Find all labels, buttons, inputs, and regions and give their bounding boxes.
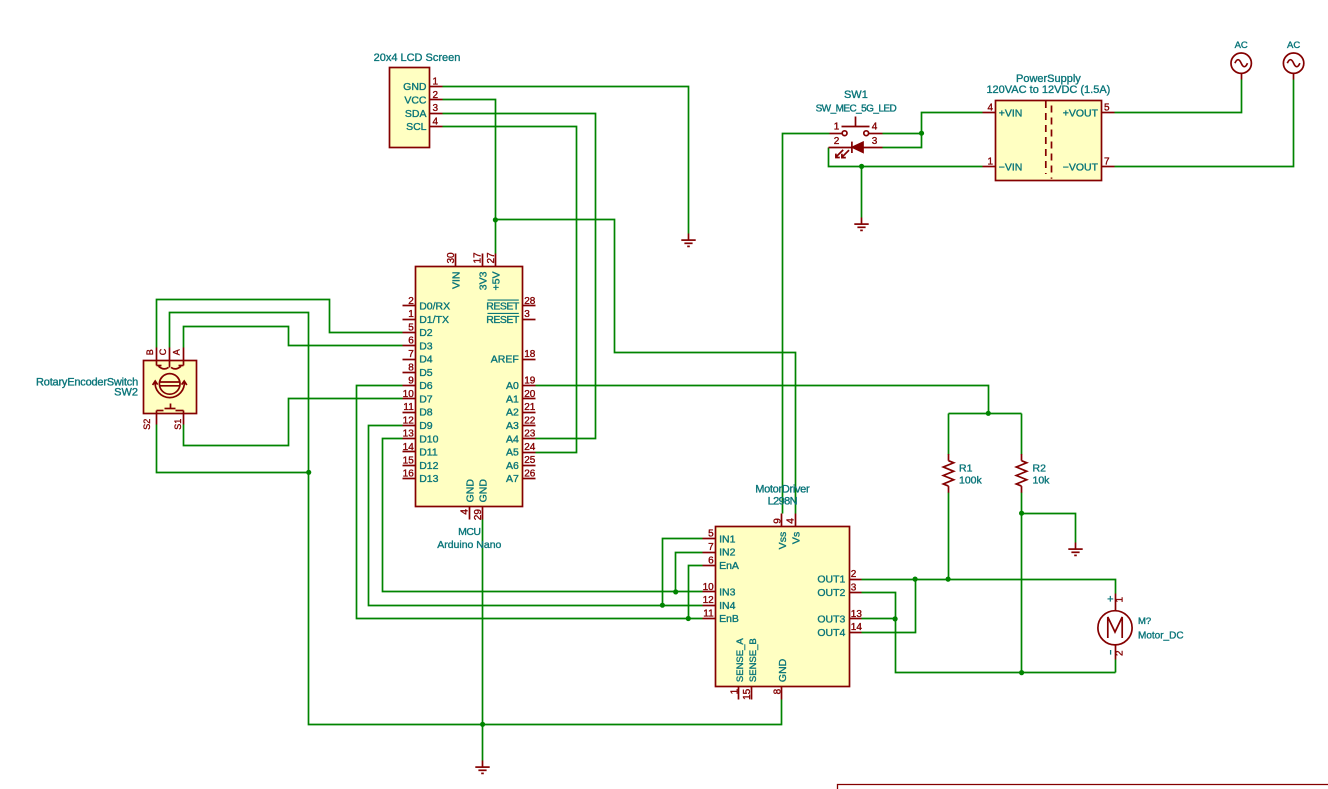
motor driver pin 13 OUT3 <box>850 618 862 620</box>
svg-text:7: 7 <box>708 542 714 553</box>
svg-text:A1: A1 <box>506 394 519 406</box>
wire SW1 pin1 to Vss <box>783 134 830 514</box>
svg-text:GND: GND <box>464 479 476 503</box>
ground SW1 <box>854 218 868 231</box>
svg-text:AC: AC <box>1287 40 1300 51</box>
svg-text:20: 20 <box>524 389 536 400</box>
svg-text:D8: D8 <box>419 407 433 419</box>
svg-text:6: 6 <box>708 555 714 566</box>
power supply pin 1 −VIN <box>983 166 996 168</box>
svg-text:−VIN: −VIN <box>999 161 1023 173</box>
svg-text:AREF: AREF <box>491 354 519 366</box>
rotary encoder rotation arrows <box>153 381 187 398</box>
svg-text:8: 8 <box>772 688 783 694</box>
svg-text:D7: D7 <box>419 393 433 405</box>
svg-text:13: 13 <box>403 429 415 440</box>
motor driver pin 15 SENSE_B bottom <box>751 687 753 700</box>
svg-text:12: 12 <box>403 415 415 426</box>
svg-text:GND: GND <box>777 658 789 682</box>
wire OUT2 to OUT3 <box>862 593 896 619</box>
svg-text:SW1: SW1 <box>844 89 868 101</box>
wire B to D2 <box>157 300 403 348</box>
wire C to ground rail <box>170 313 782 725</box>
svg-text:D13: D13 <box>419 473 438 485</box>
svg-text:SW_MEC_5G_LED: SW_MEC_5G_LED <box>816 104 897 115</box>
svg-text:OUT2: OUT2 <box>817 587 845 599</box>
svg-text:5: 5 <box>708 529 714 540</box>
LCD screen box <box>390 68 430 148</box>
MCU pin 14 D11 <box>403 451 416 453</box>
junction 5V <box>493 217 498 222</box>
wire SW1 pin3 riser <box>883 134 922 148</box>
svg-text:R1: R1 <box>959 463 973 475</box>
svg-text:100k: 100k <box>959 474 983 486</box>
MCU pin 20 A1 <box>523 398 536 400</box>
svg-text:Arduino Nano: Arduino Nano <box>437 539 501 551</box>
junction IN1/IN4 <box>660 603 665 608</box>
rotary encoder contact arcs <box>159 366 182 369</box>
svg-text:2: 2 <box>433 90 439 101</box>
motor driver pin 14 OUT4 <box>850 632 862 634</box>
svg-text:L298N: L298N <box>768 496 798 508</box>
MCU pin 1 D1/TX <box>403 319 416 321</box>
svg-text:OUT1: OUT1 <box>817 574 845 586</box>
wire LCD VCC down to +5V pin <box>443 100 496 254</box>
svg-text:3: 3 <box>433 103 439 114</box>
motor driver pin 9 Vss top <box>781 514 783 527</box>
svg-text:18: 18 <box>524 349 536 360</box>
svg-text:7: 7 <box>1104 156 1110 167</box>
ground MCU rail <box>475 761 489 774</box>
MCU pin 25 A6 <box>523 465 536 467</box>
MCU pin 29 GND bottom <box>482 507 484 520</box>
junction IN2/IN3 <box>673 589 678 594</box>
svg-text:Motor_DC: Motor_DC <box>1138 630 1184 641</box>
wire EnA to EnB <box>689 566 703 619</box>
svg-text:26: 26 <box>524 469 536 480</box>
MCU pin 18 AREF <box>523 359 536 361</box>
MCU pin 7 D4 <box>403 359 416 361</box>
resistor R2 10k <box>1016 454 1026 493</box>
svg-text:14: 14 <box>851 622 863 633</box>
svg-text:SENSE_A: SENSE_A <box>735 638 746 682</box>
svg-text:25: 25 <box>524 455 536 466</box>
svg-text:A: A <box>172 349 182 355</box>
svg-text:9: 9 <box>408 376 414 387</box>
svg-text:GND: GND <box>478 479 490 503</box>
junction -VIN <box>859 164 864 169</box>
svg-text:5: 5 <box>408 322 414 333</box>
wire R2 bottom <box>1021 493 1023 673</box>
svg-text:PowerSupply: PowerSupply <box>1016 73 1081 85</box>
junction S2/C <box>306 470 311 475</box>
svg-text:C: C <box>158 348 168 355</box>
svg-text:A6: A6 <box>506 460 519 472</box>
motor driver U? box <box>716 527 850 687</box>
LCD pin 1 GND <box>430 86 443 88</box>
wire A to D3 <box>184 327 403 348</box>
svg-text:15: 15 <box>742 688 753 700</box>
motor driver pin 12 IN4 <box>703 605 716 607</box>
svg-text:6: 6 <box>408 336 414 347</box>
svg-text:4: 4 <box>786 518 797 524</box>
svg-text:4: 4 <box>433 117 439 128</box>
svg-text:120VAC to 12VDC (1.5A): 120VAC to 12VDC (1.5A) <box>986 84 1110 96</box>
svg-text:7: 7 <box>408 349 414 360</box>
MCU pin 19 A0 <box>523 385 536 387</box>
rotary encoder top pins B C A <box>157 348 184 368</box>
wire to +VIN <box>922 113 983 134</box>
svg-text:S2: S2 <box>142 419 152 430</box>
title block border <box>838 785 1328 789</box>
svg-text:16: 16 <box>403 469 415 480</box>
MCU pin 2 D0/RX <box>403 305 416 307</box>
wire -VIN net to ground <box>861 167 863 218</box>
svg-text:MotorDriver: MotorDriver <box>755 484 810 496</box>
wire R1 bottom to OUT1 net <box>948 493 950 580</box>
junction SW1 <box>919 131 924 136</box>
wire S2 to ground net <box>157 425 309 473</box>
power supply PS box <box>996 101 1102 181</box>
svg-text:28: 28 <box>524 296 536 307</box>
svg-text:13: 13 <box>851 609 863 620</box>
svg-text:R2: R2 <box>1033 463 1047 475</box>
svg-text:A4: A4 <box>506 433 519 445</box>
svg-text:2: 2 <box>834 136 840 147</box>
wire MCU GND to rail <box>482 520 484 725</box>
svg-text:D4: D4 <box>419 354 433 366</box>
svg-text:SCL: SCL <box>406 121 427 133</box>
junction divider <box>986 411 991 416</box>
svg-text:1: 1 <box>1115 597 1126 603</box>
svg-text:A0: A0 <box>506 380 519 392</box>
svg-text:11: 11 <box>703 609 714 620</box>
wire rail to ground symbol <box>482 725 484 761</box>
wire OUT1 to motor + <box>862 580 1116 594</box>
motor driver pin 6 EnA <box>703 565 716 567</box>
svg-text:2: 2 <box>408 296 414 307</box>
wire R1 top <box>948 414 950 455</box>
MCU pin 15 D12 <box>403 465 416 467</box>
MCU pin 27 +5V top <box>495 254 497 267</box>
wire 5V to Vs <box>496 220 796 514</box>
svg-text:1: 1 <box>729 688 740 694</box>
svg-text:14: 14 <box>403 442 415 453</box>
LCD pin 2 VCC <box>430 99 443 101</box>
svg-text:IN3: IN3 <box>719 587 736 599</box>
wire SCL to A5 <box>443 127 577 453</box>
MCU pin 28 RESET <box>523 305 536 307</box>
svg-text:IN2: IN2 <box>719 547 736 559</box>
MCU pin 6 D3 <box>403 345 416 347</box>
power supply isolation dashes <box>1046 101 1052 179</box>
junction GND rail <box>480 722 485 727</box>
svg-text:+: + <box>1107 594 1113 606</box>
wire +VOUT to AC1 <box>1115 80 1242 113</box>
svg-text:20x4 LCD Screen: 20x4 LCD Screen <box>374 52 461 64</box>
svg-text:+5V: +5V <box>491 272 503 291</box>
switch SW1 body <box>830 117 883 136</box>
MCU pin 22 A3 <box>523 425 536 427</box>
svg-text:A5: A5 <box>506 447 519 459</box>
MCU pin 9 D6 <box>403 385 416 387</box>
svg-text:+VIN: +VIN <box>999 108 1023 120</box>
svg-text:EnA: EnA <box>719 560 739 572</box>
svg-text:9: 9 <box>772 518 783 524</box>
motor driver pin 10 IN3 <box>703 591 716 593</box>
MCU pin 3 RESET <box>523 319 536 321</box>
svg-text:D3: D3 <box>419 340 433 352</box>
svg-text:10: 10 <box>703 582 715 593</box>
LCD pin 3 SDA <box>430 113 443 115</box>
svg-text:D1/TX: D1/TX <box>419 314 449 326</box>
motor driver pin 4 Vs top <box>795 514 797 527</box>
rotary encoder push switch <box>157 404 184 425</box>
MCU pin 5 D2 <box>403 332 416 334</box>
motor driver pin 3 OUT2 <box>850 592 862 594</box>
svg-text:A7: A7 <box>506 473 519 485</box>
MCU pin 16 D13 <box>403 478 416 480</box>
svg-text:2: 2 <box>851 569 857 580</box>
svg-text:1: 1 <box>408 309 414 320</box>
wire IN2 to IN3 <box>676 553 703 592</box>
power supply pin 4 +VIN <box>983 112 996 114</box>
SW1 LED D <box>829 142 883 153</box>
motor driver pin 8 GND bottom <box>781 687 783 700</box>
ground R2 <box>1068 543 1082 556</box>
MCU U? box <box>416 267 523 507</box>
svg-text:12: 12 <box>703 595 715 606</box>
svg-text:D5: D5 <box>419 367 433 379</box>
svg-text:5: 5 <box>1104 103 1110 114</box>
svg-text:A3: A3 <box>506 420 519 432</box>
MCU pin 17 3V3 top <box>482 254 484 267</box>
svg-text:D11: D11 <box>419 447 438 459</box>
wire OUT4 to OUT1 <box>862 580 916 633</box>
svg-text:VIN: VIN <box>451 272 463 290</box>
svg-text:2: 2 <box>1115 650 1126 656</box>
svg-text:D12: D12 <box>419 460 438 472</box>
svg-text:30: 30 <box>446 252 457 264</box>
svg-text:4: 4 <box>872 122 878 133</box>
svg-text:MCU: MCU <box>458 526 480 538</box>
MCU pin 12 D9 <box>403 425 416 427</box>
wire R2 to ground <box>1022 514 1076 543</box>
svg-text:1: 1 <box>433 77 439 88</box>
power supply pin 5 +VOUT <box>1102 112 1115 114</box>
wire -VOUT to AC2 <box>1115 80 1294 167</box>
svg-text:10k: 10k <box>1033 474 1051 486</box>
MCU pin 4 GND bottom <box>469 507 471 520</box>
svg-text:3: 3 <box>851 582 857 593</box>
motor driver pin 1 SENSE_A bottom <box>738 687 740 700</box>
svg-text:1: 1 <box>834 122 840 133</box>
rotary encoder SW2 box <box>144 361 197 414</box>
AC source AC1 <box>1231 53 1251 80</box>
svg-text:EnB: EnB <box>719 613 739 625</box>
svg-text:3V3: 3V3 <box>477 271 489 290</box>
power supply pin 7 −VOUT <box>1102 166 1115 168</box>
svg-text:D0/RX: D0/RX <box>419 301 450 313</box>
wire D9 to IN4 <box>369 426 703 606</box>
MCU pin 21 A2 <box>523 412 536 414</box>
svg-text:A2: A2 <box>506 407 519 419</box>
rotary encoder rotor <box>159 374 180 395</box>
wire OUT3 <box>862 618 896 620</box>
svg-text:SENSE_B: SENSE_B <box>748 638 759 682</box>
svg-text:1: 1 <box>987 156 993 167</box>
MCU pin 24 A5 <box>523 452 536 454</box>
svg-text:D6: D6 <box>419 380 433 392</box>
MCU pin 10 D7 <box>403 398 416 400</box>
svg-text:3: 3 <box>524 309 530 320</box>
wire IN1 to IN4 <box>663 539 703 606</box>
svg-text:OUT3: OUT3 <box>817 614 845 626</box>
svg-text:VCC: VCC <box>404 95 427 107</box>
svg-text:−VOUT: −VOUT <box>1063 161 1099 173</box>
wire divider top rail <box>949 413 1022 415</box>
svg-text:RESET: RESET <box>486 301 520 313</box>
svg-text:IN1: IN1 <box>719 533 736 545</box>
svg-text:IN4: IN4 <box>719 600 736 612</box>
svg-text:Vss: Vss <box>777 532 789 550</box>
junction OUT4/OUT1 <box>913 577 918 582</box>
wire OUT3 net to motor - <box>896 619 1116 673</box>
svg-text:29: 29 <box>473 509 484 521</box>
svg-text:8: 8 <box>408 362 414 373</box>
junction OUT2/OUT3 <box>893 616 898 621</box>
svg-text:10: 10 <box>403 389 415 400</box>
wire D10 to IN3 <box>383 439 703 592</box>
motor M? <box>1098 594 1132 660</box>
svg-text:D9: D9 <box>419 420 433 432</box>
wire D6 to EnB <box>357 386 703 619</box>
MCU pin 30 VIN top <box>455 254 457 267</box>
junction R2/gnd <box>1019 511 1024 516</box>
svg-text:S1: S1 <box>173 419 183 430</box>
SW1 LED light arrows <box>836 150 849 158</box>
svg-text:23: 23 <box>524 429 536 440</box>
svg-text:24: 24 <box>524 442 536 453</box>
svg-text:AC: AC <box>1235 40 1248 51</box>
svg-text:OUT4: OUT4 <box>817 627 845 639</box>
svg-text:+VOUT: +VOUT <box>1063 108 1099 120</box>
junction EnA/EnB <box>686 616 691 621</box>
MCU pin 13 D10 <box>403 438 416 440</box>
junction R1/OUT1 <box>946 577 951 582</box>
svg-text:21: 21 <box>524 402 536 413</box>
resistor R1 100k <box>943 454 953 493</box>
MCU pin 26 A7 <box>523 478 536 480</box>
svg-text:Vs: Vs <box>790 532 802 544</box>
wire R2 top <box>1021 414 1023 455</box>
wire A0 to divider <box>536 386 989 414</box>
svg-text:4: 4 <box>987 103 993 114</box>
svg-text:B: B <box>145 349 155 355</box>
wire motor - stub <box>1115 660 1117 673</box>
wire SW1 pin4 <box>883 133 922 135</box>
wire SW1 pin2 to -VIN <box>829 148 983 167</box>
AC source AC2 <box>1283 53 1303 80</box>
svg-text:M?: M? <box>1138 616 1151 627</box>
LCD pin 4 SCL <box>430 126 443 128</box>
ground LCD <box>681 234 695 247</box>
wire SDA to A4 <box>443 114 596 439</box>
svg-text:11: 11 <box>403 402 414 413</box>
wire LCD GND to ground <box>443 87 689 234</box>
motor driver pin 11 EnB <box>703 618 716 620</box>
svg-text:27: 27 <box>486 252 497 264</box>
MCU pin 23 A4 <box>523 438 536 440</box>
svg-text:SDA: SDA <box>405 108 427 120</box>
svg-text:RESET: RESET <box>486 314 520 326</box>
svg-text:17: 17 <box>473 252 484 264</box>
motor driver pin 7 IN2 <box>703 552 716 554</box>
wire S1 to D7 <box>184 399 403 446</box>
svg-text:22: 22 <box>524 415 536 426</box>
svg-text:D2: D2 <box>419 327 433 339</box>
svg-text:SW2: SW2 <box>114 387 138 399</box>
MCU pin 8 D5 <box>403 372 416 374</box>
svg-text:D10: D10 <box>419 433 438 445</box>
svg-text:GND: GND <box>403 81 427 93</box>
svg-text:19: 19 <box>524 376 536 387</box>
motor driver pin 5 IN1 <box>703 538 716 540</box>
svg-text:15: 15 <box>403 455 415 466</box>
svg-text:4: 4 <box>460 509 471 515</box>
MCU pin 11 D8 <box>403 412 416 414</box>
svg-text:3: 3 <box>872 136 878 147</box>
junction R2/motor- <box>1019 670 1024 675</box>
motor driver pin 2 OUT1 <box>850 579 862 581</box>
